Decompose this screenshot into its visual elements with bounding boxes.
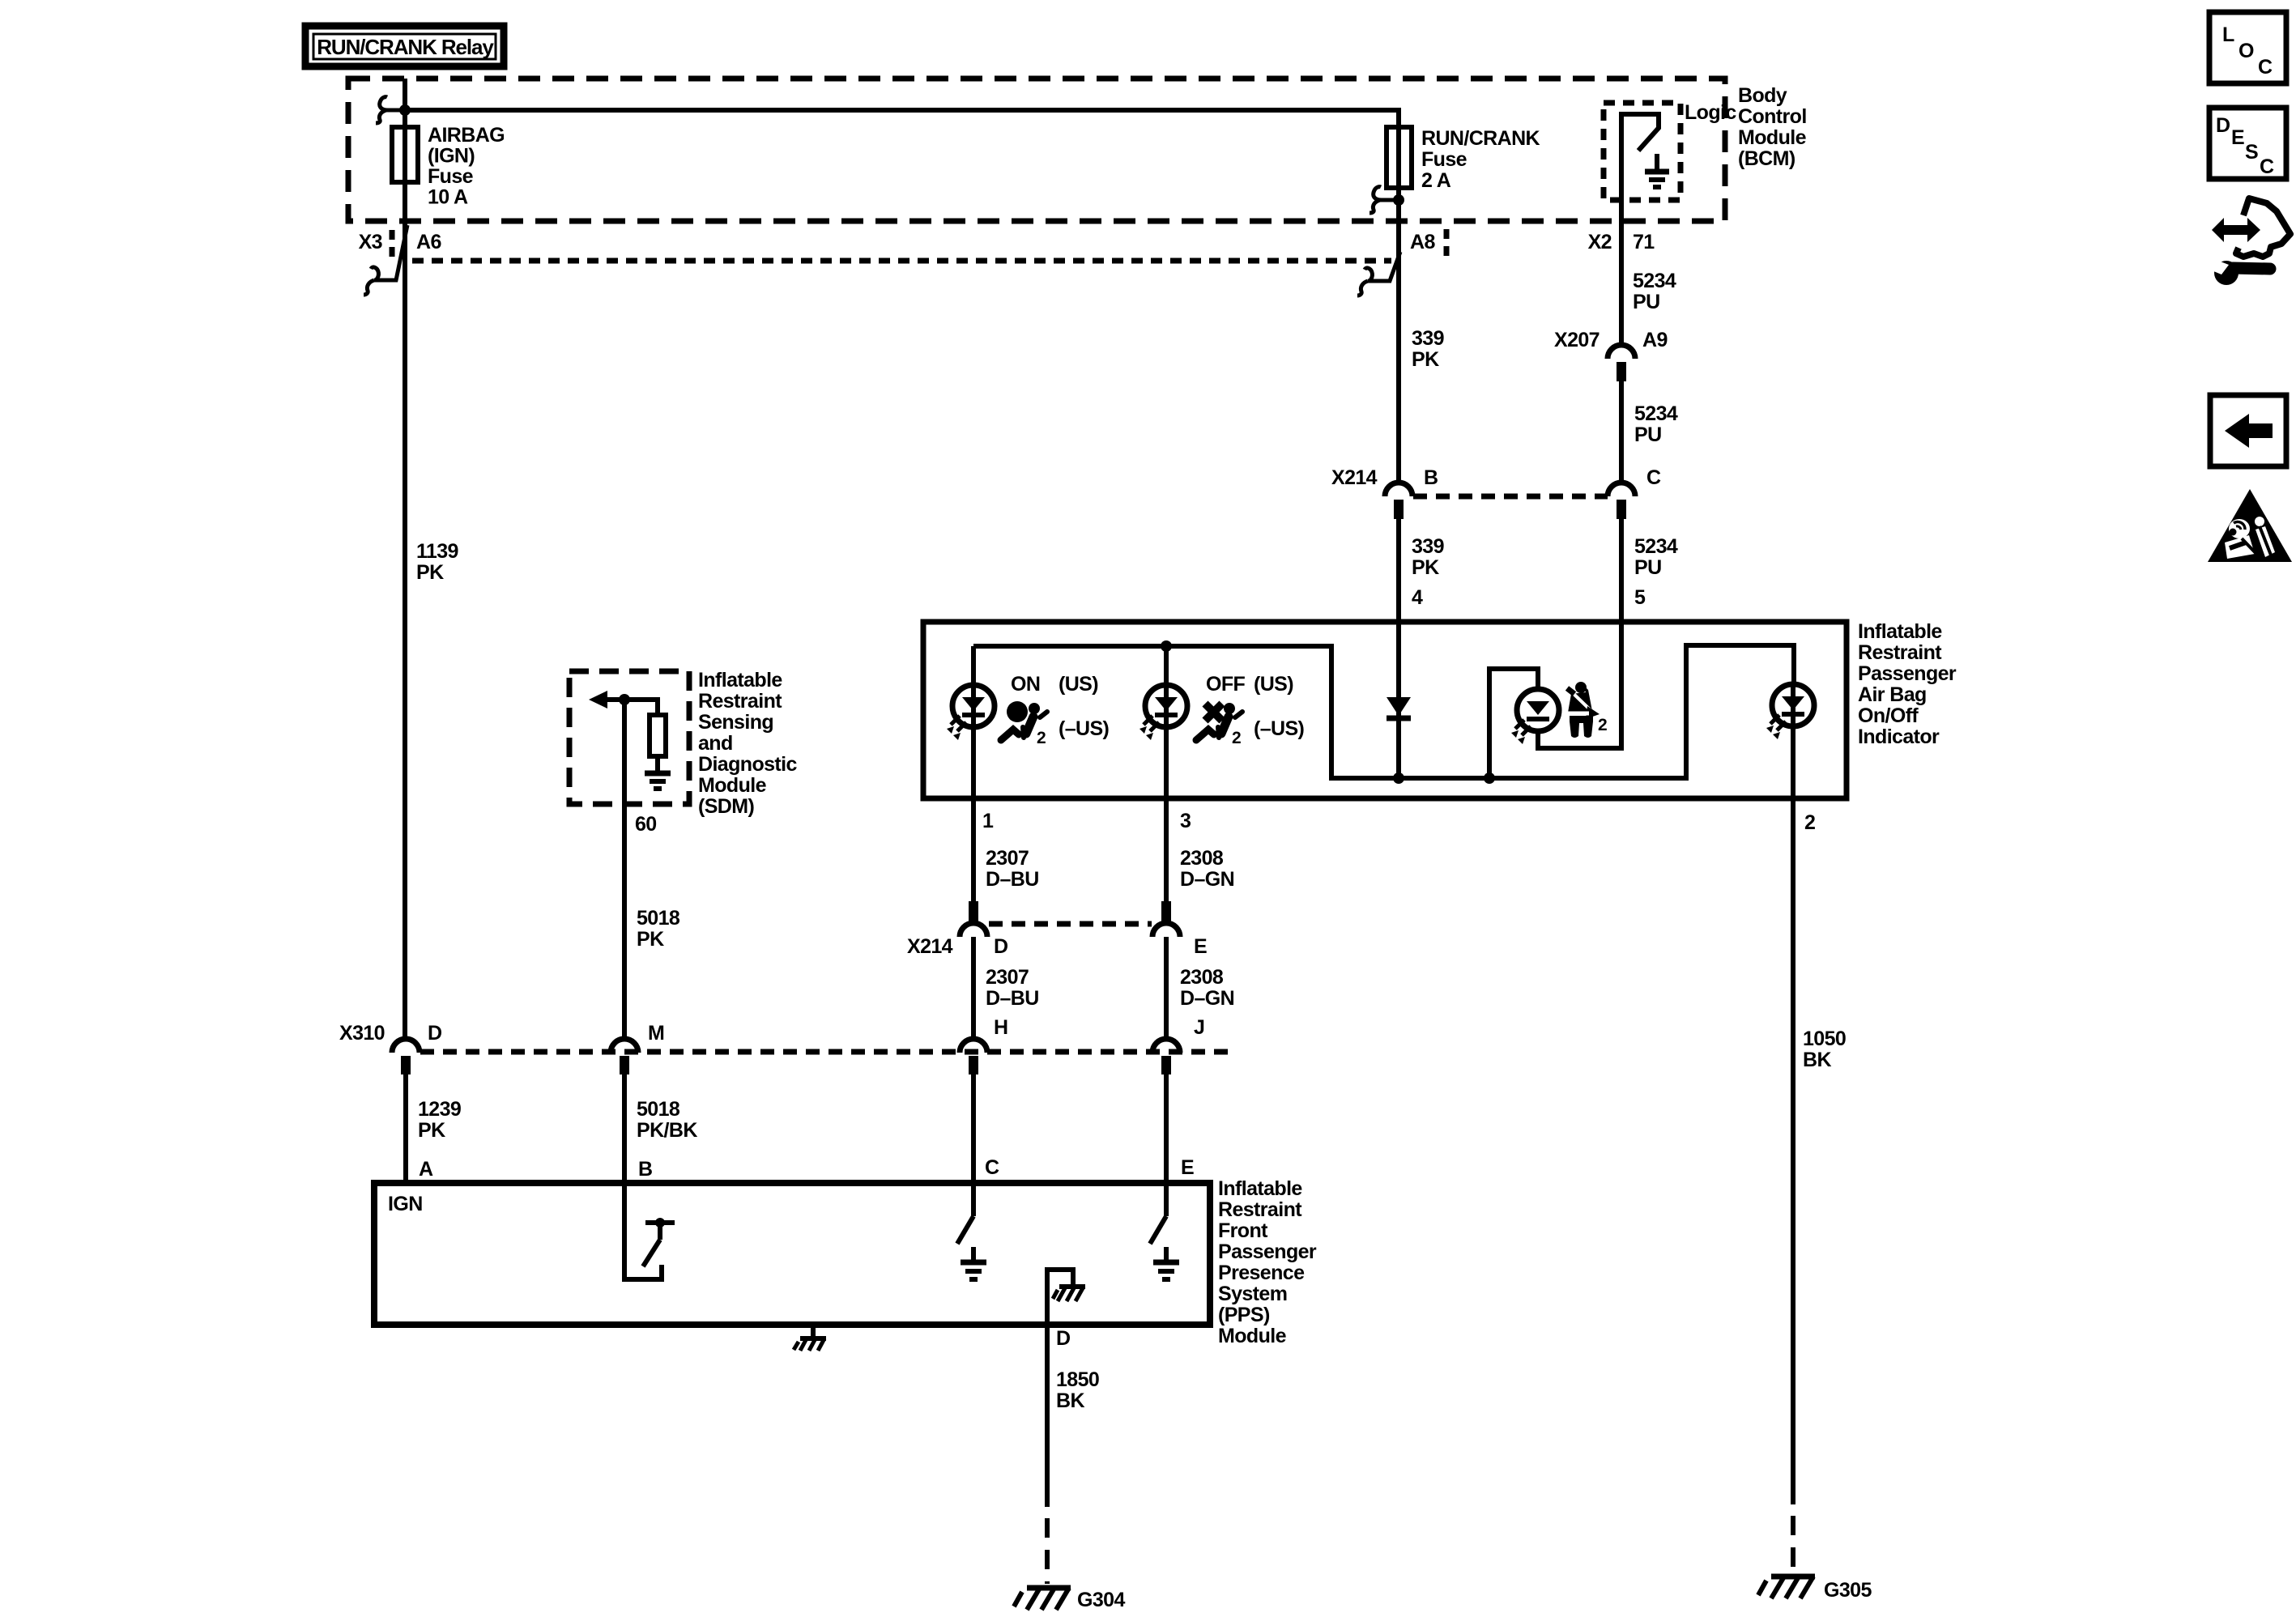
arrow output inside SDM (589, 691, 624, 709)
fuse RUN/CRANK Fuse 2 A (1387, 127, 1540, 192)
connector dashed link X214 B to C (1413, 494, 1608, 500)
svg-text:H: H (994, 1016, 1007, 1039)
connector X207 A9 terminal stub (1617, 362, 1626, 381)
svg-text:J: J (1194, 1016, 1204, 1039)
wire below RUN/CRANK fuse to X214 B (1396, 188, 1401, 483)
wire 339 PK to indicator pin 4 (1396, 519, 1401, 622)
svg-text:2: 2 (1037, 729, 1046, 747)
connector X310 H arc (960, 1039, 987, 1053)
airbag icon OFF with X (1196, 703, 1242, 740)
wire indicator internal bus (973, 645, 1794, 778)
wire LED4 branch from bus (1489, 669, 1538, 778)
wire 1050 BK down (1791, 818, 1795, 1504)
connector dotted line under BCM (412, 258, 1391, 264)
wire X214 D to X310 H (971, 937, 976, 1040)
wire 5234 PU between X207 and X214 C (1619, 381, 1624, 483)
chassis ground below PPS box (794, 1328, 826, 1351)
wire 1850 BK down (1045, 1325, 1050, 1507)
node junction below RUN/CRANK fuse (1393, 194, 1404, 206)
svg-text:E: E (1181, 1156, 1194, 1179)
relay contact hook at junction (376, 97, 405, 123)
svg-text:B: B (638, 1158, 652, 1181)
resistor inside SDM (624, 700, 666, 756)
seat belt icon (1565, 682, 1600, 738)
svg-text:(US): (US) (1254, 673, 1293, 696)
node junction LED3 top (1161, 640, 1172, 652)
node junction inside SDM (619, 694, 630, 705)
module box Inflatable Restraint Passenger Air Bag On/Off Indicator (923, 622, 1847, 798)
airbag icon ON (1001, 701, 1047, 740)
connector X310 D terminal stub (401, 1056, 411, 1074)
svg-text:X2: X2 (1588, 231, 1612, 253)
node junction diode bottom (1393, 772, 1404, 784)
svg-text:X214: X214 (907, 935, 953, 958)
svg-text:D: D (428, 1022, 441, 1045)
node junction LED4 branch (1484, 772, 1495, 784)
wire X310 H to PPS pin C (971, 1074, 976, 1183)
wire dashed break to G305 (1791, 1516, 1795, 1572)
logic driver switch inside BCM (1621, 114, 1659, 200)
svg-text:OFF: OFF (1206, 673, 1246, 696)
module box Logic dashed (1604, 103, 1680, 200)
wire SDM pin 60 down to X310 M (622, 700, 627, 1039)
svg-text:4: 4 (1412, 586, 1423, 609)
wire from BCM top edge down to AIRBAG fuse (403, 79, 407, 186)
svg-text:D: D (994, 935, 1007, 958)
svg-text:C: C (2260, 155, 2274, 178)
wire 5234 PU to indicator pin 5 (1619, 519, 1624, 622)
svg-text:D: D (2216, 114, 2230, 137)
node junction at relay output (399, 104, 411, 116)
relay contact hook at A8 junction (1370, 187, 1399, 213)
icon LOC box (2209, 12, 2286, 83)
wire LED2 vertical pin 2 (1791, 685, 1795, 818)
connector X214 E arc (1152, 923, 1180, 937)
connector X310 J terminal stub (1161, 1056, 1171, 1074)
ground symbol under switch C (961, 1247, 986, 1279)
svg-text:M: M (648, 1022, 664, 1045)
wire LED3 vertical pin 3 (1164, 646, 1169, 901)
connector X214 D arc (960, 923, 987, 937)
connector X310 M terminal stub (620, 1056, 629, 1074)
connector X214 C terminal stub (1617, 500, 1626, 519)
connector X310 D arc (392, 1039, 420, 1053)
svg-text:ON: ON (1011, 673, 1040, 696)
svg-text:X214: X214 (1331, 466, 1378, 489)
connector X310 J arc (1152, 1039, 1180, 1053)
connector ticks at A8 right (1444, 229, 1450, 257)
connector dashed line X310 (420, 1049, 1236, 1055)
svg-text:60: 60 (635, 813, 657, 836)
ground symbol inside Logic box (1645, 154, 1669, 187)
icon back arrow box (2210, 395, 2286, 466)
ground G304 symbol (1014, 1588, 1071, 1610)
wire pin 5 to LED4 bottom (1538, 622, 1621, 748)
wire dashed break to G304 (1045, 1518, 1050, 1584)
LED lamp ON indicator (947, 685, 995, 740)
svg-text:C: C (985, 1156, 999, 1179)
LED lamp On/Off indicator right (1766, 684, 1814, 739)
svg-text:E: E (2231, 126, 2244, 149)
svg-text:2: 2 (1598, 716, 1607, 734)
svg-text:(–US): (–US) (1254, 717, 1305, 740)
module box SDM dashed (569, 671, 689, 804)
ground symbol inside SDM (645, 756, 671, 789)
connector X214 D terminal stub (969, 901, 978, 922)
svg-text:RUN/CRANK Relay: RUN/CRANK Relay (317, 35, 494, 59)
svg-text:3: 3 (1180, 810, 1191, 832)
svg-text:A6: A6 (416, 231, 441, 253)
svg-text:G305: G305 (1824, 1579, 1872, 1602)
connector lead jog at A8 (1357, 252, 1400, 296)
svg-text:G304: G304 (1077, 1589, 1125, 1611)
svg-text:IGN: IGN (388, 1193, 423, 1215)
wire from Logic down to X207 (1619, 200, 1624, 345)
connector X214 B arc (1385, 483, 1412, 496)
switch E inside PPS (1150, 1183, 1166, 1244)
presence sensor switch B inside PPS (624, 1183, 675, 1279)
relay label box RUN/CRANK Relay (305, 26, 504, 66)
fuse AIRBAG (IGN) Fuse 10 A (392, 124, 505, 209)
connector X214 E terminal stub (1161, 901, 1171, 922)
svg-text:S: S (2245, 141, 2258, 164)
svg-text:(–US): (–US) (1059, 717, 1110, 740)
icon diagnostic tool arrows and wrench (2208, 198, 2290, 285)
module box PPS (374, 1183, 1210, 1325)
svg-text:X207: X207 (1554, 329, 1600, 351)
connector dashed link X214 D to E (989, 921, 1152, 927)
svg-text:X310: X310 (339, 1022, 385, 1045)
svg-text:5: 5 (1634, 586, 1646, 609)
connector X207 A9 arc (1608, 345, 1635, 359)
wire below AIRBAG fuse down to X310 D (403, 182, 407, 1039)
ground symbol under switch E (1153, 1247, 1179, 1279)
wire LED1 vertical pin 1 (971, 646, 976, 901)
svg-text:2: 2 (1232, 729, 1241, 747)
svg-text:A9: A9 (1642, 329, 1668, 351)
svg-text:E: E (1194, 935, 1207, 958)
svg-text:X3: X3 (359, 231, 382, 253)
connector X310 H terminal stub (969, 1056, 978, 1074)
svg-text:C: C (1646, 466, 1661, 489)
svg-text:D: D (1056, 1327, 1070, 1350)
svg-text:1: 1 (982, 810, 994, 832)
svg-text:(US): (US) (1059, 673, 1098, 696)
wire X310 M to PPS pin B (622, 1074, 627, 1183)
LED lamp seat belt indicator (1511, 689, 1559, 744)
wire horizontal bus to RUN/CRANK fuse (405, 110, 1399, 190)
svg-text:O: O (2238, 40, 2254, 62)
connector X214 B terminal stub (1394, 500, 1404, 519)
svg-text:71: 71 (1633, 231, 1655, 253)
svg-text:C: C (2258, 56, 2273, 79)
svg-text:L: L (2222, 23, 2234, 46)
LED lamp OFF indicator (1139, 685, 1187, 740)
connector ticks X3 (390, 230, 395, 257)
connector X310 M arc (611, 1039, 638, 1053)
svg-text:B: B (1424, 466, 1438, 489)
ground G305 symbol (1758, 1577, 1815, 1598)
internal ground path pin D inside PPS (1047, 1270, 1073, 1325)
switch C inside PPS (957, 1183, 973, 1244)
svg-text:2: 2 (1804, 811, 1815, 834)
svg-text:A8: A8 (1410, 231, 1435, 253)
connector lead jog at A6 (364, 225, 407, 295)
wire X310 D to PPS pin A (403, 1074, 408, 1183)
diode CR1 inside indicator (1387, 697, 1411, 718)
module box Body Control Module (BCM) dashed (348, 79, 1725, 221)
icon warning triangle (2208, 489, 2292, 562)
wire diode vertical pin 4 (1396, 622, 1401, 778)
icon DESC box (2209, 108, 2286, 179)
connector X214 C arc (1608, 483, 1635, 496)
wire X214 E to X310 J (1164, 937, 1169, 1040)
svg-text:Logic: Logic (1685, 101, 1736, 124)
wire X310 J to PPS pin E (1164, 1074, 1169, 1183)
chassis ground symbol inside PPS (1053, 1287, 1085, 1301)
svg-text:A: A (419, 1158, 433, 1181)
